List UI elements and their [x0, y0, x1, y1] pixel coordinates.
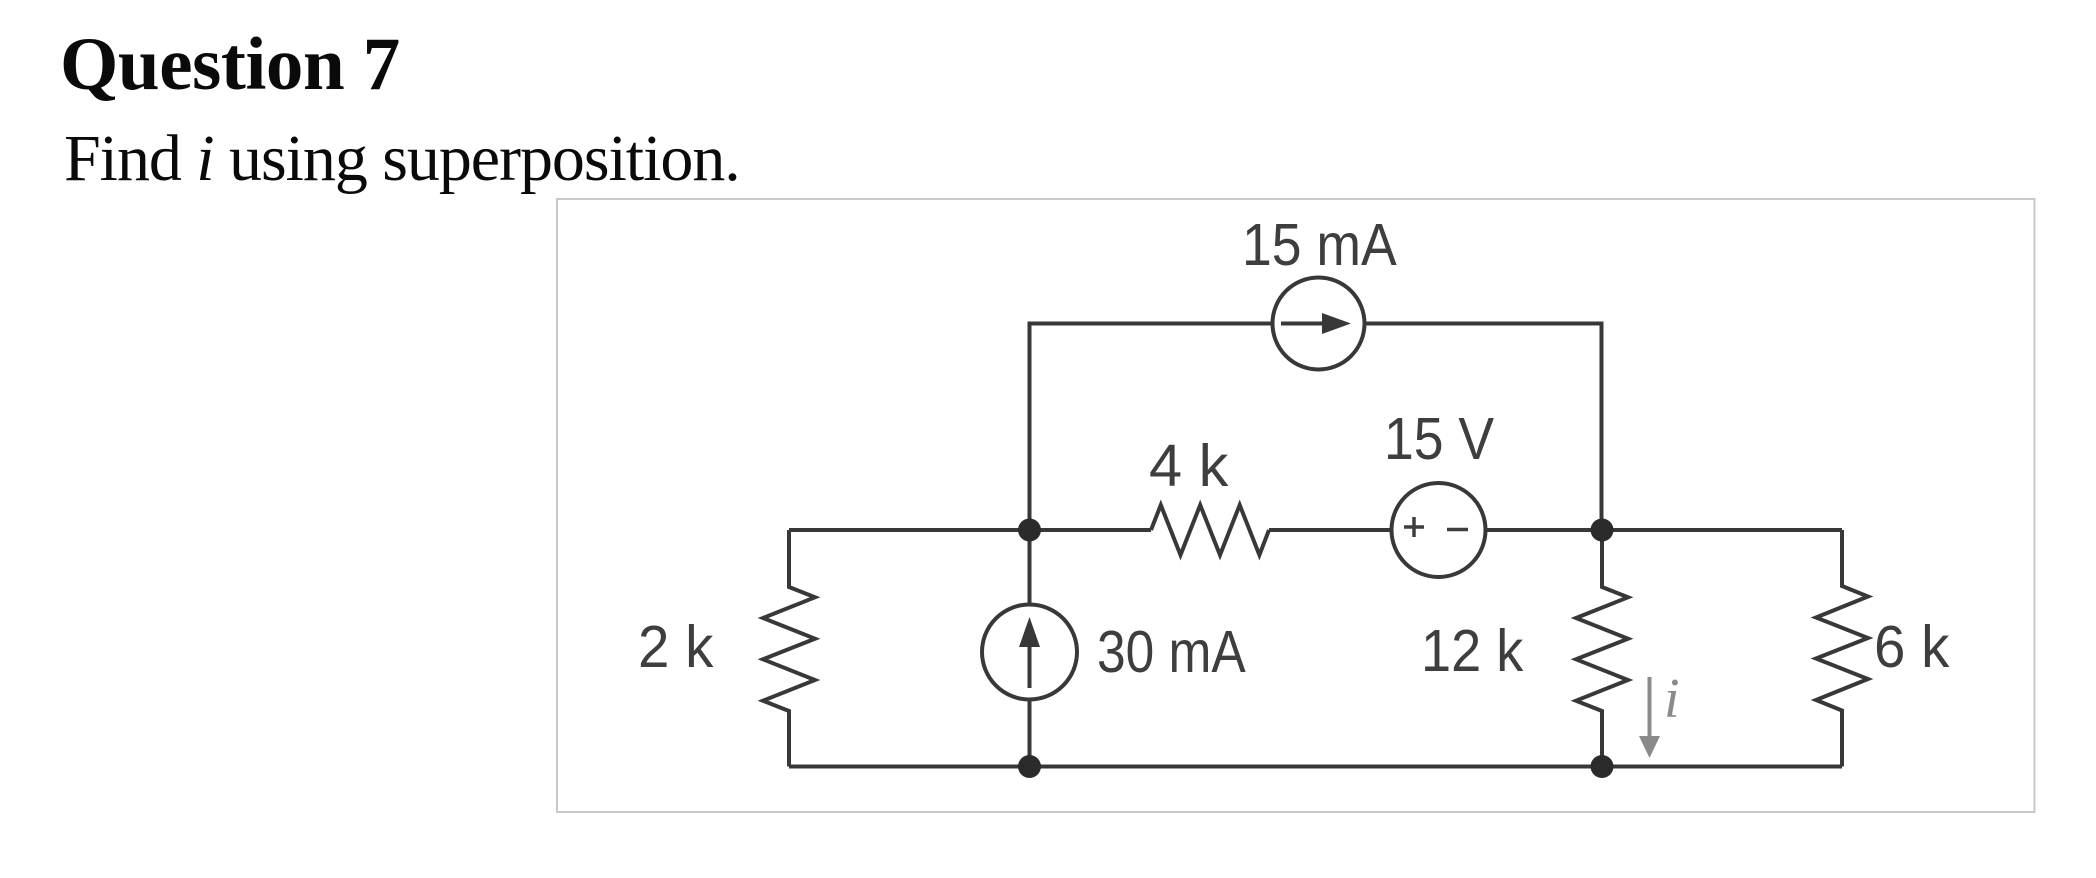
- svg-text:15 mA: 15 mA: [1242, 211, 1397, 277]
- node B (top middle-right junction): [1591, 519, 1614, 542]
- current source I2 30 mA circle + leads: [1028, 530, 1032, 767]
- arrow of I1 (points right): [1281, 313, 1351, 334]
- resistor R3 12k (vertical): [1576, 530, 1628, 767]
- wire: bottom horizontal: [789, 765, 1842, 769]
- wire: top wire right segment + top loop right vertical: [1365, 324, 1602, 531]
- svg-text:12 k: 12 k: [1421, 619, 1524, 685]
- wire: top loop left vertical + top wire left segment: [1030, 324, 1273, 531]
- node D (bottom right junction): [1591, 755, 1614, 778]
- resistor R1 2k (left vertical): [763, 530, 815, 767]
- svg-text:15 V: 15 V: [1384, 405, 1494, 471]
- arrow of I2 (points up): [1019, 617, 1040, 688]
- resistor R4 6k (right vertical): [1816, 530, 1868, 767]
- figure frame: [557, 199, 2035, 812]
- svg-text:6 k: 6 k: [1874, 614, 1950, 681]
- svg-text:i: i: [1664, 668, 1680, 730]
- svg-text:30 mA: 30 mA: [1097, 619, 1246, 685]
- node A (top middle-left junction): [1018, 519, 1041, 542]
- wire: middle horizontal left segment (node A to 2k corner): [789, 528, 1151, 532]
- polarity marks of V1: [1404, 517, 1468, 537]
- wire: middle segment between 4k and 15V source: [1269, 528, 1392, 532]
- svg-text:4 k: 4 k: [1149, 432, 1229, 499]
- node C (bottom left junction): [1018, 755, 1041, 778]
- voltage source V1 15 V circle: [1392, 483, 1486, 577]
- wire: middle segment from 15V source to node B and on to 6k corner: [1486, 528, 1843, 532]
- resistor R2 4k (horizontal): [1151, 505, 1269, 555]
- current source I1 15 mA circle: [1273, 278, 1365, 370]
- svg-text:Find i using superposition.: Find i using superposition.: [64, 122, 740, 195]
- svg-text:Question 7: Question 7: [60, 23, 400, 106]
- svg-text:2 k: 2 k: [638, 614, 714, 681]
- current arrow i (gray, points down): [1639, 677, 1660, 758]
